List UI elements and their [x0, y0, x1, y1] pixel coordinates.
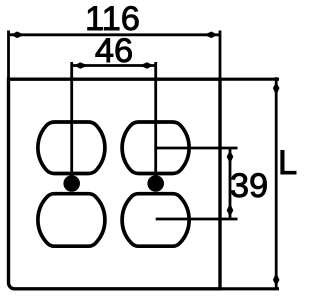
left center line: [70, 62, 73, 184]
39 top arrow: [227, 151, 234, 163]
39 upper extension line: [156, 147, 238, 150]
39 bottom arrow: [227, 205, 234, 217]
right screw dot: [147, 175, 164, 192]
46 left arrow: [74, 62, 86, 69]
116 left arrow: [11, 32, 23, 39]
lower-right receptacle opening: [122, 194, 189, 247]
left screw dot: [63, 175, 80, 192]
svg-text:39: 39: [230, 167, 268, 205]
upper-left receptacle opening: [38, 122, 105, 174]
39 lower extension line: [156, 218, 238, 221]
L bottom extension line: [220, 287, 279, 290]
lower-left receptacle opening: [38, 194, 105, 247]
39 dimension line: [229, 148, 232, 219]
116 dimension line: [9, 33, 221, 36]
svg-text:46: 46: [95, 32, 133, 70]
116 left extension line: [7, 31, 10, 80]
L bottom arrow: [273, 274, 280, 286]
wall plate outline: [9, 79, 221, 289]
L top extension line: [220, 78, 279, 81]
L top arrow: [273, 82, 280, 94]
L dimension line: [275, 77, 278, 289]
upper-right receptacle opening: [122, 122, 189, 174]
116 right arrow: [206, 32, 218, 39]
46 dimension line: [72, 64, 156, 67]
116 right extension line: [219, 31, 222, 80]
46 right arrow: [141, 62, 153, 69]
svg-text:L: L: [278, 144, 297, 182]
right center line: [154, 62, 157, 184]
